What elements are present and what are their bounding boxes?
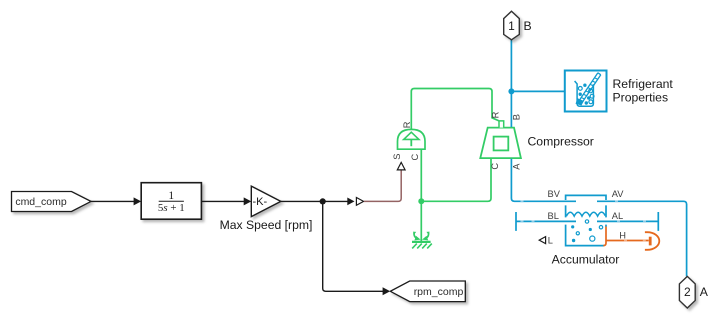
- refrigerant properties block: [565, 71, 607, 112]
- svg-text:BV: BV: [548, 189, 561, 199]
- inport tag cmd_comp: [12, 192, 92, 212]
- motor (angular velocity source) block: [398, 129, 426, 149]
- light joint ticks on port wires: [521, 201, 647, 221]
- accumulator thermal corner (orange): [603, 227, 606, 246]
- branch wire down to rpm_comp: [323, 201, 383, 291]
- wire H (thermal, unconnected): [606, 240, 649, 242]
- svg-text:C: C: [490, 163, 500, 170]
- blue wire port1 down through compressor to accumulator BV: [511, 40, 576, 202]
- outport tag rpm_comp: [390, 281, 465, 302]
- svg-text:B: B: [524, 19, 532, 33]
- svg-text:1: 1: [508, 19, 515, 33]
- green wire motor R to compressor R: [411, 89, 499, 130]
- connection port 1 (B): [504, 11, 520, 40]
- wire gain to junction and ps converter: [281, 200, 349, 202]
- svg-text:1: 1: [168, 190, 174, 202]
- svg-text:C: C: [410, 154, 420, 161]
- PS (physical signal) wire to motor S port: [364, 170, 401, 201]
- wire cmd_comp to transfer fcn: [91, 200, 135, 202]
- svg-text:rpm_comp: rpm_comp: [414, 286, 464, 298]
- svg-text:H: H: [619, 231, 626, 241]
- wire accumulator AV to port 2: [597, 201, 687, 276]
- open triangle S input marker: [397, 162, 405, 170]
- svg-text:L: L: [548, 235, 553, 245]
- svg-text:AV: AV: [612, 189, 625, 199]
- svg-text:2: 2: [684, 285, 691, 299]
- arrowhead into transfer fcn: [134, 197, 142, 205]
- blue junction dot: [508, 88, 514, 94]
- thermal open terminator: [645, 232, 659, 250]
- svg-text:Accumulator: Accumulator: [552, 252, 620, 266]
- transfer function block 1/(5s+1): [141, 183, 201, 220]
- svg-text:Max Speed [rpm]: Max Speed [rpm]: [220, 218, 313, 232]
- green wire motor C down to ground junction, right to compressor C: [421, 149, 491, 241]
- arrowhead into rpm_comp: [383, 287, 391, 295]
- accumulator tank icon: [566, 195, 606, 245]
- open input triangle of PS line: [356, 198, 363, 206]
- svg-text:cmd_comp: cmd_comp: [15, 196, 67, 208]
- compressor block: [480, 121, 521, 158]
- svg-text:B: B: [512, 114, 522, 120]
- connection port 2 (A): [679, 276, 695, 308]
- wire transfer fcn to gain: [201, 200, 244, 202]
- svg-text:5s + 1: 5s + 1: [158, 202, 185, 214]
- wire BL (unconnected): [516, 212, 576, 231]
- svg-text:BL: BL: [548, 211, 559, 221]
- svg-text:Compressor: Compressor: [528, 135, 594, 149]
- wire AL (unconnected): [597, 212, 658, 231]
- svg-text:-K-: -K-: [252, 196, 267, 208]
- svg-text:Refrigerant: Refrigerant: [613, 77, 674, 91]
- arrowhead (signal end): [347, 198, 354, 206]
- arrowhead into gain: [244, 197, 252, 205]
- svg-text:Properties: Properties: [613, 90, 669, 104]
- svg-text:S: S: [392, 154, 402, 160]
- L port marker (unconnected PS output): [539, 237, 545, 244]
- green junction dot: [418, 198, 424, 204]
- mechanical rotational reference (ground): [412, 232, 432, 249]
- svg-text:AL: AL: [612, 211, 623, 221]
- blue wire junction to refrigerant properties: [511, 90, 564, 92]
- svg-text:A: A: [511, 163, 521, 170]
- bubbles: [572, 220, 603, 242]
- thermometer bulb: [577, 99, 583, 104]
- junction dot (branch): [320, 198, 326, 204]
- gain block -K- Max Speed [rpm]: [251, 186, 280, 217]
- svg-text:R: R: [490, 111, 500, 118]
- svg-text:A: A: [700, 285, 709, 299]
